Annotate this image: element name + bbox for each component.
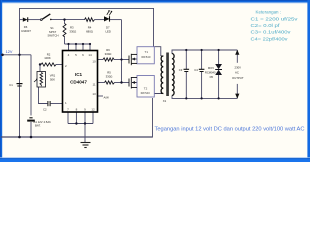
svg-text:C1 = 2200 uf/25v: C1 = 2200 uf/25v: [251, 16, 299, 21]
svg-text:C2: C2: [43, 108, 47, 112]
svg-text:330Ω: 330Ω: [105, 52, 112, 56]
svg-text:100K: 100K: [44, 56, 51, 60]
svg-text:SWITCH: SWITCH: [47, 34, 58, 38]
svg-text:50K: 50K: [50, 78, 55, 82]
svg-text:RCM040: RCM040: [205, 71, 216, 75]
svg-text:14: 14: [88, 53, 92, 57]
svg-text:680Ω: 680Ω: [86, 29, 93, 33]
svg-text:T2: T2: [144, 87, 148, 91]
svg-text:C1: C1: [9, 83, 13, 87]
svg-text:1N4007: 1N4007: [21, 29, 31, 33]
svg-text:LED: LED: [105, 30, 110, 34]
svg-text:C4: C4: [194, 68, 198, 72]
svg-text:230V: 230V: [235, 66, 242, 70]
svg-text:D5: D5: [210, 75, 214, 79]
svg-text:IC1: IC1: [75, 72, 83, 77]
svg-text:IRF540: IRF540: [141, 91, 151, 95]
svg-text:MOV: MOV: [208, 66, 214, 70]
svg-text:330Ω: 330Ω: [69, 30, 76, 34]
svg-text:CD4047: CD4047: [70, 80, 87, 85]
svg-text:IRF540: IRF540: [141, 55, 151, 59]
svg-text:AC: AC: [235, 71, 239, 75]
svg-text:Keterangan :: Keterangan :: [256, 9, 282, 14]
svg-text:C3: C3: [179, 68, 183, 72]
svg-text:C2= 0.0l pf: C2= 0.0l pf: [251, 23, 281, 28]
svg-text:BAT.: BAT.: [35, 124, 41, 128]
svg-text:A/W: A/W: [104, 96, 110, 100]
svg-text:12: 12: [91, 108, 95, 112]
svg-text:OUTPUT: OUTPUT: [232, 76, 244, 80]
svg-text:330Ω: 330Ω: [106, 75, 113, 79]
svg-text:10: 10: [92, 60, 96, 64]
svg-text:C3= 0.1uf/400v: C3= 0.1uf/400v: [251, 30, 292, 35]
svg-text:11: 11: [92, 83, 95, 87]
svg-text:C4= 22pf/400v: C4= 22pf/400v: [251, 36, 289, 41]
svg-text:T1: T1: [145, 50, 149, 54]
svg-text:12V: 12V: [6, 50, 13, 54]
svg-text:Tegangan input 12 volt DC dan: Tegangan input 12 volt DC dan output 220…: [155, 126, 305, 132]
svg-text:13: 13: [92, 92, 96, 96]
svg-text:X1: X1: [163, 99, 167, 103]
